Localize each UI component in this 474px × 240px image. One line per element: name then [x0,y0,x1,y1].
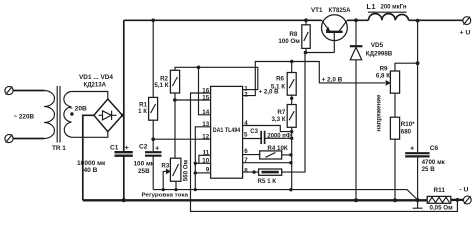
wire: C1 bottom to ground rail [123,156,125,200]
junction: R4 right on ground bus [289,153,292,156]
svg-text:2: 2 [244,91,248,98]
svg-text:напряжение: напряжение [376,94,383,132]
wire: R9 to R10 [394,93,396,117]
svg-text:C2: C2 [139,144,148,151]
svg-text:0,05 Ом: 0,05 Ом [430,204,454,211]
junction: VT1 base node [304,51,308,55]
wire: ground bus right of chip [291,131,293,189]
svg-text:~ 20В: ~ 20В [69,106,87,113]
svg-text:40 В: 40 В [84,167,98,174]
svg-text:13: 13 [202,121,209,128]
svg-text:R8: R8 [289,31,297,38]
resistor R2 [170,70,179,93]
inductor L1 [368,12,409,20]
junction: R6/R7 divider node [290,97,293,100]
terminal: +U output [463,17,471,25]
resistor R3 (current adjust) [166,158,181,181]
wire: R9 top to output line [395,63,418,71]
junction: R9 top on +U sense [416,61,420,65]
wire: rectifier plus vertical down to C1 [123,20,125,151]
svg-text:200 мкГн: 200 мкГн [381,4,407,10]
svg-text:C1: C1 [110,144,119,151]
junction: R11 right / -U node [456,198,460,202]
svg-text:R4 10К: R4 10К [267,145,288,152]
wire: R1 bottom to node, C2 top [152,120,154,151]
wire: bridge minus return to ground rail [83,115,94,200]
wire: top rail transistor collector to L1 [347,19,368,21]
ground stub below rail at C6 [413,200,423,208]
svg-text:DA1 TL494: DA1 TL494 [213,128,241,134]
wire: pin 6 to R4 [243,154,260,156]
wire: signal ground / sense line to C6 minus [153,190,417,200]
wire: R3 wiper [163,171,167,189]
svg-text:R11: R11 [434,187,446,194]
transformer TR1 primary winding [44,91,55,139]
svg-text:+ 2,0 В: + 2,0 В [322,76,343,83]
terminal: mains input bottom [5,134,13,142]
wire: pin 5 to C3 [243,138,262,140]
svg-text:R6: R6 [276,76,284,83]
svg-text:~ 220В: ~ 220В [14,113,35,120]
svg-text:+: + [410,143,415,152]
junction: output sense on +U line [416,19,420,23]
wire: R2 top to feedback line [175,67,258,89]
svg-text:R7: R7 [277,109,285,116]
wire: R6 top stub [291,62,293,73]
svg-text:C3: C3 [250,129,258,135]
wire: C2 bottom to current-sense line [152,156,154,189]
junction: chip ground bus on sense line [194,188,197,191]
svg-text:100 мк: 100 мк [134,160,155,167]
wire: R2 bottom to pin 15 [175,93,211,100]
junction: pins 10,11 on ground bus [194,162,197,165]
wire: R8 top stub [305,20,307,25]
terminal: -U output [463,196,471,204]
capacitor C6 plates [405,153,429,156]
chip DA1 TL494 body [211,86,243,178]
node on secondary winding [70,112,73,115]
svg-text:3,3 К: 3,3 К [271,116,285,123]
svg-text:15: 15 [202,94,209,101]
svg-text:- U: - U [459,186,468,193]
wire: pin 7 to ground bus [243,162,292,164]
svg-text:14: 14 [202,109,209,116]
junction: R10 bottom on ground rail [393,198,397,202]
transformer TR1 secondary winding [64,92,72,138]
wire: R6 bottom to R7 top [291,95,293,104]
wire: R5 right to VT1 base [282,53,305,173]
wire: R1/C2 branch from top rail [152,20,154,97]
svg-text:12: 12 [202,134,209,141]
junction: C3/R4/pin7 bus on sense line [289,188,292,191]
svg-text:VD1 ... VD4: VD1 ... VD4 [79,74,114,81]
svg-text:R3: R3 [161,163,169,170]
junction: pin8 / R5 left [252,170,255,173]
junction: C3 right on ground bus [290,137,293,140]
terminal: mains input top [5,86,13,94]
wire: VT1 base lead [333,32,335,53]
junction: pin7 on ground bus [289,161,292,164]
junction: R2 bottom / pin15 / R3 node [173,98,177,102]
wire: output sense branch to R9 [417,21,419,153]
wire: C3 right to ground bus [265,137,292,139]
wire: mains input top [13,90,44,92]
resistor R8 [302,25,310,49]
wire: pin 2 to voltage feedback, R9 wiper [243,62,385,96]
junction: R1 bottom / C2 / pin12 node [151,137,155,141]
svg-text:4: 4 [244,120,248,127]
svg-text:10000 мк: 10000 мк [77,160,106,167]
wire: L1 output to +U terminal [409,19,464,21]
wire: R8 bottom to base node [305,48,334,52]
transistor VT1 KT825A [322,15,348,41]
svg-text:R5 1 К: R5 1 К [258,178,277,185]
svg-text:+: + [155,144,160,153]
capacitor C3 [261,131,264,144]
junction: R1 branch on +rail [151,19,155,23]
svg-text:R10*: R10* [401,121,415,128]
resistor R6 [287,73,296,96]
junction: C1 minus on ground rail [122,198,126,202]
svg-text:VD5: VD5 [371,42,384,49]
wire: pin 14 branch [199,67,211,115]
svg-text:+ U: + U [460,29,471,36]
diode VD5 [350,46,363,60]
wire: top +input rail from rectifier [124,19,322,21]
resistor R4 [260,151,282,159]
wire: C6 bottom to ground rail [417,157,419,200]
svg-text:100 Ом: 100 Ом [278,38,300,45]
svg-text:КД2998В: КД2998В [366,50,393,57]
wire: pin 8 to R5 [243,171,259,173]
bridge rectifier VD1..VD4 diamond [94,99,123,132]
wire: pin 13 ground bus [195,127,210,190]
svg-text:+ 2,0 В: + 2,0 В [259,88,280,95]
resistor R7 [287,105,296,128]
svg-text:8: 8 [244,167,248,174]
wire: R10 bottom to ground [394,139,396,200]
junction: R3 bottom on sense line [174,188,177,191]
wire: pin 11 to pin 10 bracket [199,155,211,163]
wire: ground rail after R11 to -U terminal [451,199,464,201]
svg-text:560 Ом: 560 Ом [183,159,190,181]
svg-text:25 В: 25 В [422,166,436,173]
capacitor C2 plates [145,152,162,156]
svg-text:4700 мк: 4700 мк [422,159,446,166]
resistor R5 [259,169,282,175]
svg-text:C6: C6 [430,145,439,152]
svg-text:КД213А: КД213А [84,82,107,89]
svg-text:11: 11 [203,150,210,157]
wire: node to pin 12 [153,138,210,140]
resistor R11 shunt with zigzag [427,196,451,203]
junction: pin9 on ground bus [194,171,197,174]
wire: main ground rail [83,199,427,201]
svg-text:5: 5 [244,132,248,139]
svg-text:16: 16 [202,87,209,94]
resistor R1 [149,97,158,120]
wire: R3 bottom [175,181,177,189]
svg-text:5,1 К: 5,1 К [154,82,168,89]
junction: VD5 on +rail [354,18,358,22]
capacitor C1 plates [115,152,133,156]
svg-text:2000 пФ: 2000 пФ [267,133,291,139]
wire: R4 right to ground bus [282,154,292,156]
junction: R8 on +rail [304,18,308,22]
junction: VD5 anode on ground rail [354,198,358,202]
resistor R10* [390,117,399,139]
junction: R6 top on +2.0V wire [290,60,293,63]
wire: pin 4 to R7 bottom node [243,126,292,132]
svg-text:Регуровка тока: Регуровка тока [142,192,189,198]
junction: R7 bottom / pin4 node [290,130,293,133]
svg-text:7: 7 [244,157,248,164]
svg-text:L1: L1 [367,2,377,11]
svg-text:6,8 К: 6,8 К [376,72,390,79]
wire: secondary top to bridge AC1 [72,92,108,100]
svg-text:680: 680 [401,129,412,136]
wire: R2 bottom down to R3 top [174,100,176,158]
svg-text:9: 9 [206,167,210,174]
svg-text:VT1: VT1 [311,7,323,14]
wire: pin 10 to bus [195,162,210,164]
bridge inner diode [99,111,117,120]
wire: pin 9 to bus [195,172,210,174]
wire: pin 16 to current sense bus [191,93,458,211]
junction: R3 wiper on sense line [162,188,165,191]
svg-text:6: 6 [244,148,248,155]
wire: R7 bottom stub [291,127,293,131]
svg-text:10: 10 [202,158,209,165]
svg-text:+: + [125,143,130,152]
svg-text:25В: 25В [138,168,150,175]
svg-text:КТ825А: КТ825А [329,7,351,14]
wire: secondary bottom to bridge AC2 [72,132,108,138]
junction: pin14 branch on feedback wire [197,66,201,70]
wire: mains input bottom [13,138,44,140]
svg-text:1 К: 1 К [138,108,147,115]
resistor R9 (voltage adjust) [386,71,400,93]
junction: C6 minus on ground rail [416,198,420,202]
wire: VD5 branch [355,20,357,200]
svg-text:TR 1: TR 1 [52,145,66,152]
junction: bridge plus output [121,114,124,117]
transformer TR1 core [57,86,60,143]
